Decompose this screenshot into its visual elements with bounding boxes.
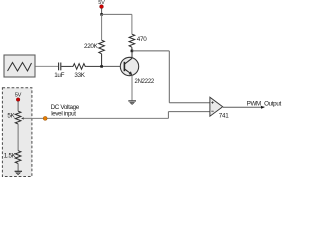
wire 5V down to rail junction (101, 8, 103, 14)
svg-text:1uF: 1uF (54, 72, 64, 79)
svg-text:220K: 220K (84, 43, 99, 50)
wire step up to opamp minus (167, 112, 169, 119)
wire collector stub (131, 51, 133, 58)
resistor R5 1.5K (4, 151, 21, 164)
svg-text:33K: 33K (74, 72, 85, 79)
wire to opamp minus input (168, 111, 210, 113)
svg-text:470: 470 (137, 36, 147, 43)
resistor R3 470 (129, 34, 147, 51)
op-amp U1 741 (210, 97, 229, 119)
dashed subcircuit box (2, 88, 32, 177)
wire emitter to ground (131, 75, 133, 100)
svg-text:1.5K: 1.5K (4, 153, 17, 160)
5V supply top (98, 0, 105, 9)
capacitor C1 1uF (54, 63, 64, 80)
wire rail horizontal to 470 (102, 13, 132, 15)
junction node base (100, 65, 103, 68)
5V supply in box (15, 93, 22, 102)
label DC Voltage level input (51, 104, 80, 117)
wire R5 to ground (17, 164, 19, 171)
junction node rail (100, 13, 103, 16)
junction node collector (131, 50, 134, 53)
svg-text:5K: 5K (7, 113, 15, 120)
potentiometer R4 5K (7, 111, 23, 124)
wire 5V to pot (17, 101, 19, 111)
resistor R2 33K (72, 64, 87, 80)
wire down to opamp plus (168, 51, 170, 103)
svg-text:PWM_Output: PWM_Output (247, 101, 282, 108)
function generator V1 (4, 55, 35, 77)
resistor R1 220K (84, 14, 104, 66)
output wire (223, 106, 265, 109)
wire rail down to R3 (131, 14, 133, 34)
wire C1 to R2 (61, 65, 72, 67)
node connector orange (43, 116, 47, 120)
wire collector to right (132, 50, 169, 52)
svg-text:2N2222: 2N2222 (135, 79, 155, 85)
svg-text:level input: level input (51, 110, 76, 117)
wire to opamp plus input (169, 102, 210, 104)
wire V1 to C1 (36, 65, 59, 67)
svg-text:741: 741 (219, 113, 230, 120)
wire wiper to right (24, 117, 168, 119)
transistor Q1 2N2222 (120, 57, 155, 85)
ground under Q1 (128, 101, 136, 105)
wire R2 to Q1 base (86, 65, 101, 67)
ground under R5 (15, 171, 22, 174)
wire pot to R5 (17, 124, 19, 151)
